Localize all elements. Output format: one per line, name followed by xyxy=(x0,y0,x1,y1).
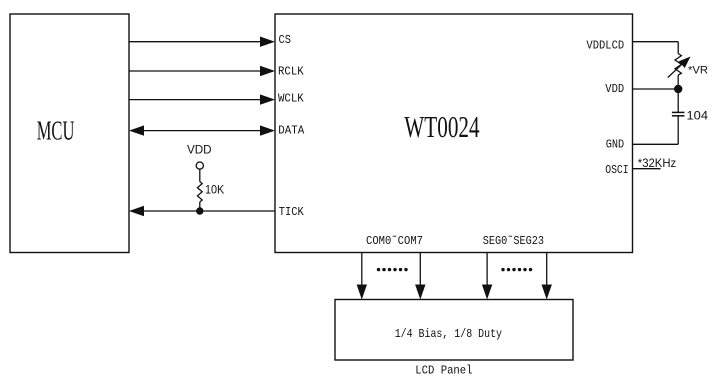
svg-text:VDD: VDD xyxy=(187,142,212,156)
svg-text:SEG0˜SEG23: SEG0˜SEG23 xyxy=(483,234,544,248)
svg-text:MCU: MCU xyxy=(37,116,75,146)
svg-text:VDD: VDD xyxy=(605,82,624,96)
svg-text:OSCI: OSCI xyxy=(605,163,629,177)
svg-text:LCD Panel: LCD Panel xyxy=(415,363,472,376)
svg-text:GND: GND xyxy=(606,138,624,152)
svg-text:104: 104 xyxy=(687,108,709,122)
svg-text:*VR: *VR xyxy=(688,64,708,76)
svg-text:COM0˜COM7: COM0˜COM7 xyxy=(366,234,423,248)
svg-text:WT0024: WT0024 xyxy=(404,109,480,144)
svg-text:RCLK: RCLK xyxy=(278,64,304,78)
svg-text:WCLK: WCLK xyxy=(278,91,304,105)
svg-text:DATA: DATA xyxy=(278,123,305,137)
svg-text:VDDLCD: VDDLCD xyxy=(586,39,624,53)
svg-text:10K: 10K xyxy=(205,182,224,196)
svg-text:CS: CS xyxy=(279,33,291,47)
svg-text:*32KHz: *32KHz xyxy=(638,156,676,170)
svg-text:TICK: TICK xyxy=(279,205,305,219)
svg-text:1/4 Bias, 1/8 Duty: 1/4 Bias, 1/8 Duty xyxy=(395,327,502,341)
